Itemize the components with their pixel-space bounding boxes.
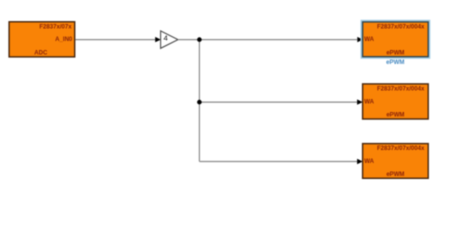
svg-text:ePWM: ePWM	[386, 172, 404, 178]
svg-text:ADC: ADC	[34, 51, 48, 57]
arrowhead into ePWM2	[357, 99, 363, 104]
svg-text:F2837x/07x: F2837x/07x	[39, 24, 72, 30]
ePWM2 block	[363, 84, 429, 119]
svg-text:F2837x/07x/004x: F2837x/07x/004x	[377, 146, 425, 152]
svg-text:WA: WA	[364, 100, 374, 106]
svg-text:ePWM: ePWM	[386, 50, 404, 56]
gain block G1 (triangle)	[161, 31, 178, 48]
svg-text:WA: WA	[364, 159, 374, 165]
ePWM1 block (selected, blue halo)	[361, 21, 429, 59]
svg-text:WA: WA	[364, 37, 374, 43]
svg-text:4: 4	[164, 34, 169, 43]
ePWM3 block	[363, 144, 429, 179]
wire ADC to gain	[75, 39, 156, 41]
arrowhead into ePWM1	[357, 37, 363, 42]
wire to ePWM3	[199, 161, 357, 163]
arrowhead into ePWM3	[357, 159, 363, 164]
wire to ePWM2	[199, 101, 357, 103]
vertical branch wire	[198, 40, 200, 162]
svg-text:ePWM: ePWM	[386, 113, 404, 119]
svg-text:A_IN0: A_IN0	[55, 37, 73, 43]
svg-text:F2837x/07x/004x: F2837x/07x/004x	[377, 24, 425, 30]
junction node J1	[197, 37, 202, 42]
wire gain to ePWM1	[178, 39, 357, 41]
ADC block U1	[9, 22, 75, 57]
junction node J2	[197, 100, 202, 105]
svg-text:ePWM: ePWM	[386, 59, 404, 66]
svg-text:F2837x/07x/004x: F2837x/07x/004x	[377, 86, 425, 92]
arrowhead into gain	[155, 37, 161, 42]
